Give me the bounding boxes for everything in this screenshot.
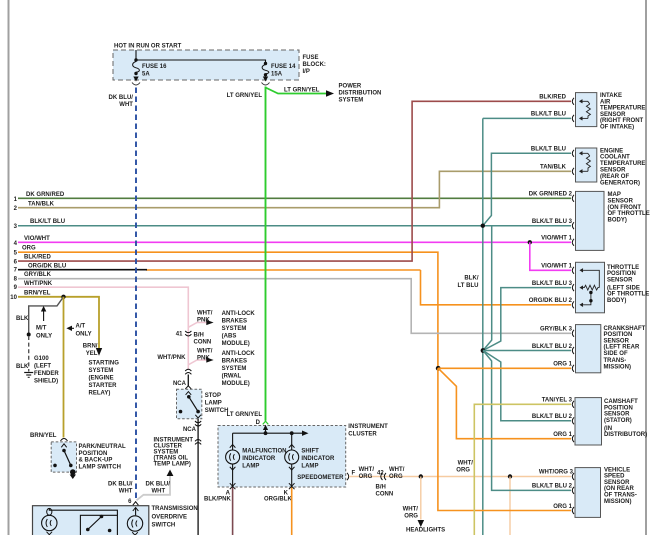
svg-text:5A: 5A bbox=[142, 72, 150, 78]
svg-text:POSITION: POSITION bbox=[79, 451, 108, 457]
svg-text:POSITION: POSITION bbox=[607, 271, 636, 277]
svg-text:STARTING: STARTING bbox=[89, 361, 120, 367]
svg-text:41: 41 bbox=[176, 332, 183, 338]
svg-text:BLK: BLK bbox=[16, 316, 29, 322]
svg-text:TRANSMISSION: TRANSMISSION bbox=[152, 506, 198, 512]
svg-text:CONN: CONN bbox=[376, 492, 394, 498]
svg-text:WHT/: WHT/ bbox=[197, 311, 213, 317]
svg-text:SYSTEM: SYSTEM bbox=[222, 326, 247, 332]
svg-text:ORG: ORG bbox=[456, 468, 470, 474]
svg-text:AIR: AIR bbox=[600, 99, 611, 105]
svg-text:TAN/BLK: TAN/BLK bbox=[28, 201, 55, 207]
svg-text:LT GRN/YEL: LT GRN/YEL bbox=[284, 88, 320, 94]
svg-text:MALFUNCTION: MALFUNCTION bbox=[242, 448, 286, 454]
svg-text:HEADLIGHTS: HEADLIGHTS bbox=[406, 528, 445, 534]
svg-text:(LEFT REAR: (LEFT REAR bbox=[604, 345, 641, 351]
svg-text:G100: G100 bbox=[34, 356, 49, 362]
svg-text:ORG: ORG bbox=[404, 514, 418, 520]
svg-text:CLUSTER: CLUSTER bbox=[348, 431, 377, 437]
svg-text:POWER: POWER bbox=[339, 84, 362, 90]
svg-text:BLK/LT BLU 2: BLK/LT BLU 2 bbox=[532, 484, 573, 490]
svg-text:SYSTEM: SYSTEM bbox=[222, 366, 247, 372]
svg-text:TEMPERATURE: TEMPERATURE bbox=[600, 106, 645, 112]
svg-text:VIO/WHT 1: VIO/WHT 1 bbox=[541, 236, 572, 242]
svg-text:I/P: I/P bbox=[303, 69, 310, 75]
svg-text:WHT/: WHT/ bbox=[458, 461, 474, 467]
svg-text:(ON REAR: (ON REAR bbox=[604, 486, 634, 492]
svg-text:SHIELD): SHIELD) bbox=[34, 378, 58, 384]
svg-text:BLK/LT BLU 2: BLK/LT BLU 2 bbox=[532, 344, 573, 350]
svg-text:SENSOR: SENSOR bbox=[600, 112, 626, 118]
svg-text:D: D bbox=[256, 420, 261, 426]
svg-text:MISSION): MISSION) bbox=[604, 364, 632, 370]
svg-text:BLK/LT BLU: BLK/LT BLU bbox=[30, 219, 65, 225]
svg-text:NCA: NCA bbox=[183, 427, 197, 433]
svg-text:SENSOR: SENSOR bbox=[600, 168, 626, 174]
svg-text:15A: 15A bbox=[271, 72, 283, 78]
svg-text:OF TRANS-: OF TRANS- bbox=[604, 493, 637, 499]
svg-text:OF INTAKE): OF INTAKE) bbox=[600, 125, 634, 131]
svg-text:INTAKE: INTAKE bbox=[600, 93, 622, 99]
svg-text:GRY/BLK: GRY/BLK bbox=[24, 272, 52, 278]
svg-text:BLK: BLK bbox=[16, 364, 29, 370]
svg-text:ONLY: ONLY bbox=[76, 332, 92, 338]
svg-text:DK BLU/: DK BLU/ bbox=[108, 482, 133, 488]
svg-text:WHT/: WHT/ bbox=[403, 507, 419, 513]
svg-text:10: 10 bbox=[10, 295, 17, 301]
svg-text:DK BLU/: DK BLU/ bbox=[146, 482, 171, 488]
svg-text:DK GRN/RED 2: DK GRN/RED 2 bbox=[529, 192, 573, 198]
svg-text:(ON FRONT: (ON FRONT bbox=[608, 205, 642, 211]
svg-text:BRN/YEL: BRN/YEL bbox=[30, 433, 57, 439]
svg-text:INDICATOR: INDICATOR bbox=[301, 456, 335, 462]
svg-text:BODY): BODY) bbox=[607, 298, 626, 304]
svg-text:BLK/PNK: BLK/PNK bbox=[204, 497, 231, 503]
svg-text:WHT: WHT bbox=[119, 489, 133, 495]
svg-text:SHIFT: SHIFT bbox=[301, 448, 319, 454]
svg-text:LAMP: LAMP bbox=[242, 464, 259, 470]
svg-text:GRY/BLK 3: GRY/BLK 3 bbox=[540, 327, 573, 333]
svg-text:LT GRN/YEL: LT GRN/YEL bbox=[227, 93, 263, 99]
svg-text:SENSOR: SENSOR bbox=[604, 412, 630, 418]
svg-text:NCA: NCA bbox=[173, 381, 187, 387]
svg-text:PNK: PNK bbox=[197, 356, 210, 362]
svg-text:HOT IN RUN OR START: HOT IN RUN OR START bbox=[114, 44, 182, 50]
svg-text:ANTI-LOCK: ANTI-LOCK bbox=[222, 351, 256, 357]
svg-text:WHT/: WHT/ bbox=[359, 467, 375, 473]
svg-text:SWITCH: SWITCH bbox=[152, 523, 176, 529]
svg-text:(RIGHT FRONT: (RIGHT FRONT bbox=[600, 118, 644, 124]
svg-text:SPEED: SPEED bbox=[604, 474, 625, 480]
svg-text:VIO/WHT: VIO/WHT bbox=[24, 236, 50, 242]
svg-text:B/H: B/H bbox=[194, 333, 204, 339]
svg-text:BLK/LT BLU: BLK/LT BLU bbox=[531, 147, 566, 153]
svg-text:WHT/ORG 3: WHT/ORG 3 bbox=[539, 470, 574, 476]
svg-text:POSITION: POSITION bbox=[604, 332, 633, 338]
svg-text:BLOCK:: BLOCK: bbox=[303, 62, 326, 68]
svg-text:SYSTEM: SYSTEM bbox=[89, 368, 114, 374]
svg-text:LT GRN/YEL: LT GRN/YEL bbox=[227, 412, 263, 418]
svg-text:B/H: B/H bbox=[376, 485, 386, 491]
svg-text:ENGINE: ENGINE bbox=[600, 148, 623, 154]
svg-text:THROTTLE: THROTTLE bbox=[607, 265, 639, 271]
svg-text:WHT/PNK: WHT/PNK bbox=[24, 281, 53, 287]
svg-text:SYSTEM: SYSTEM bbox=[339, 98, 364, 104]
svg-text:VIO/WHT 1: VIO/WHT 1 bbox=[541, 264, 572, 270]
svg-text:WHT/: WHT/ bbox=[389, 467, 405, 473]
svg-text:ORG: ORG bbox=[389, 474, 403, 480]
svg-text:BLK/RED: BLK/RED bbox=[24, 255, 51, 261]
svg-text:BLK/RED: BLK/RED bbox=[539, 95, 566, 101]
svg-text:ORG 1: ORG 1 bbox=[553, 362, 572, 368]
svg-text:COOLANT: COOLANT bbox=[600, 155, 630, 161]
svg-text:WHT/: WHT/ bbox=[197, 349, 213, 355]
svg-text:OF THROTTLE: OF THROTTLE bbox=[607, 292, 649, 298]
svg-text:BRAKES: BRAKES bbox=[222, 319, 247, 325]
svg-text:FUSE 14: FUSE 14 bbox=[271, 64, 296, 70]
svg-text:GENERATOR): GENERATOR) bbox=[600, 180, 640, 186]
svg-text:TAN/YEL 3: TAN/YEL 3 bbox=[542, 398, 573, 404]
svg-text:ONLY: ONLY bbox=[36, 334, 52, 340]
svg-text:VEHICLE: VEHICLE bbox=[604, 467, 630, 473]
svg-text:CONN: CONN bbox=[194, 340, 212, 346]
svg-text:ORG 1: ORG 1 bbox=[553, 432, 572, 438]
svg-text:DK BLU/: DK BLU/ bbox=[109, 95, 134, 101]
svg-text:LAMP: LAMP bbox=[301, 464, 318, 470]
svg-text:ANTI-LOCK: ANTI-LOCK bbox=[222, 311, 256, 317]
svg-text:ORG/DK BLU 2: ORG/DK BLU 2 bbox=[529, 298, 573, 304]
svg-text:(RWAL: (RWAL bbox=[222, 374, 242, 380]
svg-text:BLK/LT BLU: BLK/LT BLU bbox=[531, 112, 566, 118]
svg-text:BLK/LT BLU 2: BLK/LT BLU 2 bbox=[532, 414, 573, 420]
svg-text:STOP: STOP bbox=[205, 393, 221, 399]
svg-text:(ABS: (ABS bbox=[222, 334, 237, 340]
svg-text:ORG: ORG bbox=[359, 474, 373, 480]
svg-text:FUSE: FUSE bbox=[303, 55, 319, 61]
svg-text:CAMSHAFT: CAMSHAFT bbox=[604, 399, 638, 405]
svg-text:A/T: A/T bbox=[76, 324, 86, 330]
svg-text:TAN/BLK: TAN/BLK bbox=[540, 165, 567, 171]
svg-text:(ENGINE: (ENGINE bbox=[89, 376, 114, 382]
svg-text:SENSOR: SENSOR bbox=[604, 338, 630, 344]
svg-text:MAP: MAP bbox=[608, 192, 621, 198]
svg-text:ORG 1: ORG 1 bbox=[553, 504, 572, 510]
svg-text:ORG/DK BLU: ORG/DK BLU bbox=[28, 264, 66, 270]
svg-text:BRN/YEL: BRN/YEL bbox=[24, 290, 51, 296]
svg-text:DK GRN/RED: DK GRN/RED bbox=[26, 192, 65, 198]
svg-text:F: F bbox=[352, 471, 356, 477]
svg-text:WHT/PNK: WHT/PNK bbox=[157, 355, 186, 361]
svg-text:BRN/: BRN/ bbox=[83, 344, 98, 350]
svg-text:SPEEDOMETER: SPEEDOMETER bbox=[297, 475, 344, 481]
svg-text:STARTER: STARTER bbox=[89, 383, 118, 389]
svg-text:POSITION: POSITION bbox=[604, 405, 633, 411]
svg-text:TRANS-: TRANS- bbox=[604, 358, 627, 364]
svg-text:SWITCH: SWITCH bbox=[205, 408, 229, 414]
svg-text:LAMP: LAMP bbox=[205, 401, 222, 407]
svg-text:FENDER: FENDER bbox=[34, 371, 59, 377]
svg-text:SENSOR: SENSOR bbox=[607, 277, 633, 283]
svg-text:(LEFT: (LEFT bbox=[34, 363, 51, 369]
svg-text:ORG: ORG bbox=[22, 246, 36, 252]
svg-text:PARK/NEUTRAL: PARK/NEUTRAL bbox=[79, 444, 126, 450]
svg-text:(STATOR): (STATOR) bbox=[604, 418, 632, 424]
svg-text:MISSION): MISSION) bbox=[604, 499, 632, 505]
svg-text:BLK/: BLK/ bbox=[464, 276, 478, 282]
svg-text:(LEFT SIDE: (LEFT SIDE bbox=[607, 285, 640, 291]
svg-text:BRAKES: BRAKES bbox=[222, 359, 247, 365]
svg-text:DISTRIBUTION: DISTRIBUTION bbox=[339, 91, 382, 97]
svg-text:YEL: YEL bbox=[86, 351, 98, 357]
svg-text:CRANKSHAFT: CRANKSHAFT bbox=[604, 326, 646, 332]
svg-text:OF THROTTLE: OF THROTTLE bbox=[608, 211, 650, 217]
svg-text:BLK/LT BLU 3: BLK/LT BLU 3 bbox=[532, 219, 573, 225]
svg-text:RELAY): RELAY) bbox=[89, 391, 111, 397]
svg-text:PNK: PNK bbox=[197, 318, 210, 324]
svg-text:SIDE OF: SIDE OF bbox=[604, 351, 628, 357]
svg-text:MODULE): MODULE) bbox=[222, 341, 250, 347]
svg-text:OVERDRIVE: OVERDRIVE bbox=[152, 514, 188, 520]
svg-text:& BACK-UP: & BACK-UP bbox=[79, 458, 113, 464]
svg-text:DISTRIBUTOR): DISTRIBUTOR) bbox=[604, 432, 647, 438]
svg-text:INDICATOR: INDICATOR bbox=[242, 456, 276, 462]
svg-text:BODY): BODY) bbox=[608, 218, 627, 224]
svg-text:LT BLU: LT BLU bbox=[457, 283, 478, 289]
svg-text:LAMP SWITCH: LAMP SWITCH bbox=[79, 464, 121, 470]
svg-text:MODULE): MODULE) bbox=[222, 381, 250, 387]
svg-text:WHT: WHT bbox=[119, 102, 133, 108]
svg-text:BLK/LT BLU 3: BLK/LT BLU 3 bbox=[532, 281, 573, 287]
svg-text:SENSOR: SENSOR bbox=[608, 198, 634, 204]
svg-text:M/T: M/T bbox=[36, 326, 47, 332]
svg-text:SENSOR: SENSOR bbox=[604, 480, 630, 486]
svg-text:WHT: WHT bbox=[152, 489, 166, 495]
svg-text:TEMP LAMP): TEMP LAMP) bbox=[154, 461, 191, 467]
svg-text:FUSE 16: FUSE 16 bbox=[142, 64, 167, 70]
svg-text:(IN: (IN bbox=[604, 426, 612, 432]
svg-text:ORG/BLK: ORG/BLK bbox=[264, 497, 292, 503]
svg-text:TEMPERATURE: TEMPERATURE bbox=[600, 161, 645, 167]
svg-text:(REAR OF: (REAR OF bbox=[600, 174, 629, 180]
svg-text:INSTRUMENT: INSTRUMENT bbox=[348, 424, 388, 430]
